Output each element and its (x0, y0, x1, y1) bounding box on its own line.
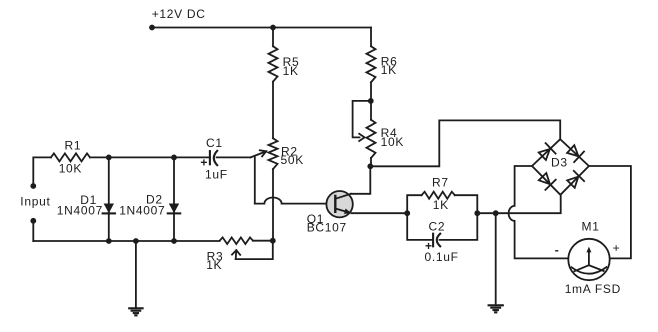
svg-text:D3: D3 (551, 156, 568, 170)
+12V DC supply rail wire (152, 27, 371, 29)
+12V rail left terminal dot (149, 25, 155, 31)
resistor R7 (422, 192, 455, 199)
capacitor C2 straight plate (432, 234, 434, 247)
diode D2 triangle (169, 204, 179, 214)
resistor R4 (pot) (367, 120, 376, 158)
wire C1 to R2 wiper (217, 156, 251, 158)
diode D1 wire (108, 157, 110, 241)
wire R5 bottom to R2 top (272, 82, 274, 139)
svg-text:R1: R1 (65, 138, 82, 152)
M1 scale arc (572, 267, 607, 274)
svg-text:C2: C2 (429, 219, 446, 233)
svg-text:+12V DC: +12V DC (152, 7, 206, 21)
Q1 emitter wire to R7/C2 (352, 212, 408, 214)
svg-text:0.1uF: 0.1uF (425, 250, 459, 264)
svg-text:1N4007: 1N4007 (57, 203, 103, 217)
svg-text:10K: 10K (381, 135, 404, 149)
ground (left) wire (135, 241, 137, 308)
svg-text:1K: 1K (283, 64, 299, 78)
wire R1 to C1 (90, 156, 210, 158)
M1 pivot right line (589, 265, 604, 271)
ground (right) symbol (489, 304, 503, 306)
Q1 emitter arrowhead (344, 209, 352, 214)
node: D1 bottom (106, 238, 112, 244)
capacitor C1 curved plate (214, 151, 217, 165)
wire rail corner down to R6 (370, 28, 372, 47)
node: rail junction to R5 (270, 25, 276, 31)
input upper terminal dot (30, 183, 36, 189)
R2 wiper arrow shaft (251, 151, 267, 157)
wire node to R4 top (370, 101, 372, 120)
Q1 base wire with hop over R2-R3 wire (255, 198, 335, 204)
capacitor C2 curved plate (437, 234, 440, 247)
R7 branch right riser (455, 195, 478, 213)
R3 wiper arrow shaft (235, 250, 238, 259)
resistor R2 (pot) (269, 138, 278, 169)
input lower terminal wire (32, 221, 34, 241)
wire bridge left to meter minus (with hop) (509, 166, 569, 258)
wire R3 to junction (253, 240, 273, 242)
D3 diode top-left triangle (539, 149, 550, 160)
Q1 emitter diagonal (335, 209, 348, 213)
R7 branch left riser (407, 195, 421, 213)
input upper terminal wire (33, 157, 51, 186)
resistor R6 (367, 46, 376, 82)
wire R4 bottom to collector node (370, 158, 372, 166)
wire R6 bottom to node (370, 82, 372, 101)
ground (left) symbol (129, 307, 142, 309)
D3 diode top-right triangle (567, 145, 578, 156)
node: R1/D1 top (106, 155, 112, 161)
wire bridge right to meter plus (589, 166, 631, 258)
R4 wiper bypass wire (353, 101, 371, 137)
svg-text:+: + (613, 241, 621, 255)
svg-text:50K: 50K (281, 153, 304, 167)
bridge rectifier D3 outline (532, 139, 589, 195)
Q1 collector diagonal (335, 194, 351, 199)
svg-text:1N4007: 1N4007 (119, 203, 165, 217)
M1 needle arrowhead (586, 247, 591, 253)
M1 pivot left line (574, 265, 589, 271)
node: R3/R2 junction (270, 238, 276, 244)
resistor R5 (269, 46, 278, 81)
svg-text:1uF: 1uF (205, 168, 228, 182)
svg-text:R7: R7 (432, 176, 449, 190)
D3 diode bottom-left bar (545, 180, 555, 190)
Q1 base bar (334, 196, 336, 212)
input lower terminal dot (30, 218, 36, 224)
resistor R3 (pot) (220, 237, 253, 244)
node: R7/C2 left (404, 210, 410, 216)
bottom rail wire (33, 240, 219, 242)
R4 wiper arrowhead (359, 134, 364, 141)
R3 wiper return wire (236, 241, 273, 259)
capacitor C1 straight plate (209, 151, 211, 164)
R2 wiper arrowhead (260, 150, 266, 156)
wire R2 bottom down to R3 junction (272, 169, 274, 241)
svg-text:BC107: BC107 (307, 220, 347, 234)
C2 branch left riser (407, 213, 433, 240)
D3 diode bottom-right bar (574, 171, 584, 181)
Q1 collector wire (351, 166, 370, 194)
diode D1 triangle (104, 204, 114, 214)
ground (right) wire (495, 213, 497, 305)
D3 diode bottom-right triangle (567, 177, 578, 188)
svg-text:10K: 10K (59, 162, 82, 176)
D3 diode top-left bar (546, 143, 556, 154)
signal wire to bridge bottom (477, 195, 560, 213)
node: ground branch (133, 238, 139, 244)
svg-text:M1: M1 (582, 220, 600, 234)
wire branch down to base wire (254, 157, 256, 203)
D3 diode top-right bar (574, 152, 584, 163)
R3 wiper arrowhead (232, 250, 240, 255)
diode D2 wire (173, 157, 175, 241)
svg-text:Input: Input (20, 195, 50, 209)
transistor Q1 body (326, 191, 352, 217)
node: R6/R4 junction (368, 98, 374, 104)
diode D2 cathode bar (168, 212, 180, 214)
svg-text:1K: 1K (206, 258, 222, 272)
diode D1 cathode bar (103, 212, 115, 214)
D3 diode bottom-left triangle (539, 173, 550, 184)
svg-text:-: - (555, 243, 560, 257)
node: D2 top (171, 155, 177, 161)
resistor R1 (51, 153, 90, 161)
svg-text:1K: 1K (381, 63, 397, 77)
M1 needle (588, 251, 590, 266)
wire rail junction down to R5 (272, 28, 274, 47)
node: R7/C2 right (474, 210, 480, 216)
svg-text:C1: C1 (206, 136, 223, 150)
node: D2 bottom (171, 238, 177, 244)
C2 branch right riser (440, 213, 478, 240)
meter M1 body (568, 239, 609, 280)
node: collector / R4 junction (367, 163, 373, 169)
svg-text:1K: 1K (433, 198, 449, 212)
node: ground branch right (493, 210, 499, 216)
wire collector node to bridge top (370, 120, 560, 166)
svg-text:1mA FSD: 1mA FSD (565, 282, 621, 296)
